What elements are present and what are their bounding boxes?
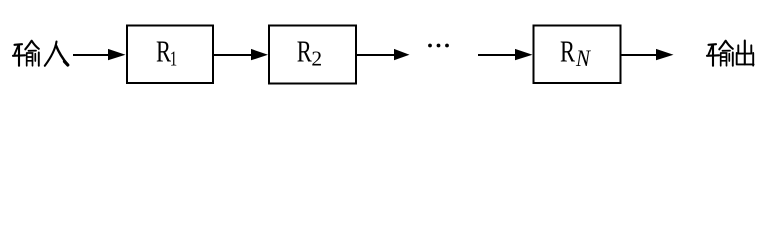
block R1	[127, 26, 213, 84]
svg-text:R: R	[560, 35, 575, 69]
svg-text:1: 1	[170, 47, 178, 71]
block R2	[269, 26, 356, 84]
block RN	[534, 26, 621, 84]
输 character	[13, 41, 39, 66]
入 character	[45, 42, 68, 66]
wire: R1 to R2 arrow	[213, 49, 268, 60]
wire: R2 output arrow	[357, 49, 410, 60]
svg-text:R: R	[297, 35, 312, 69]
wire: output arrow	[621, 49, 674, 60]
ellipsis dots	[428, 44, 449, 48]
出 character	[737, 41, 754, 66]
svg-text:2: 2	[311, 47, 322, 71]
node 输出 (output label)	[707, 41, 754, 66]
svg-text:N: N	[575, 46, 591, 71]
node 输入 (input label)	[13, 41, 68, 66]
wire: input arrow	[73, 49, 126, 60]
wire: arrow into RN	[478, 49, 533, 60]
输 character	[707, 41, 733, 66]
